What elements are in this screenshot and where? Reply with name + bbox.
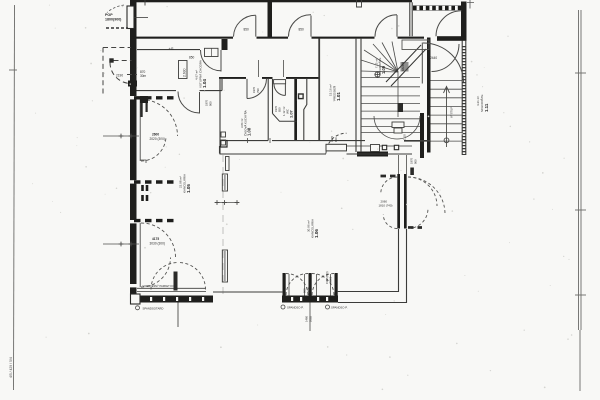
svg-text:1.01: 1.01: [336, 92, 341, 101]
svg-text:30.96 m²: 30.96 m²: [307, 220, 311, 232]
svg-text:3030 (300): 3030 (300): [150, 242, 165, 246]
svg-text:850: 850: [189, 56, 195, 60]
svg-text:18x176: 18x176: [401, 61, 405, 71]
svg-text:1.06: 1.06: [314, 229, 319, 238]
svg-text:4175: 4175: [152, 237, 159, 241]
svg-text:850: 850: [244, 28, 250, 32]
svg-text:1460: 1460: [305, 316, 309, 322]
svg-text:2020 (300): 2020 (300): [150, 137, 165, 141]
svg-text:2440: 2440: [430, 56, 437, 60]
svg-text:1970: 1970: [274, 106, 278, 112]
svg-text:4.21 m²: 4.21 m²: [476, 96, 480, 106]
svg-text:VYSTUP: VYSTUP: [450, 107, 454, 118]
svg-text:1970: 1970: [410, 158, 414, 164]
svg-text:4/5 / 429 / 5/4: 4/5 / 429 / 5/4: [9, 357, 13, 378]
svg-text:SPANDSO P.: SPANDSO P.: [331, 306, 348, 310]
svg-text:900: 900: [303, 288, 307, 293]
svg-text:2085: 2085: [309, 316, 313, 322]
svg-text:3.84 m²: 3.84 m²: [240, 118, 244, 128]
svg-text:2190: 2190: [116, 74, 123, 78]
svg-text:1.10: 1.10: [403, 134, 407, 140]
svg-text:1800(900): 1800(900): [105, 18, 122, 22]
svg-text:2000: 2000: [307, 287, 311, 293]
svg-text:850: 850: [278, 107, 282, 112]
svg-text:+S: +S: [169, 46, 174, 51]
svg-text:2.630: 2.630: [183, 68, 187, 77]
svg-text:2600: 2600: [152, 133, 159, 137]
svg-text:15.16 m²: 15.16 m²: [329, 84, 333, 96]
svg-text:850: 850: [334, 137, 338, 142]
svg-text:850: 850: [299, 28, 305, 32]
svg-text:1970: 1970: [205, 100, 209, 106]
svg-text:POP: POP: [105, 13, 113, 17]
svg-text:1.11: 1.11: [484, 103, 489, 112]
svg-text:1970: 1970: [252, 87, 256, 93]
svg-text:VSTUPNÁ CHODBA: VSTUPNÁ CHODBA: [199, 60, 203, 88]
svg-text:790: 790: [256, 88, 260, 93]
svg-text:900: 900: [414, 159, 418, 164]
svg-text:22.98 m²: 22.98 m²: [179, 176, 183, 188]
svg-text:7.15 m²: 7.15 m²: [375, 58, 379, 68]
svg-text:4.67 m²: 4.67 m²: [195, 70, 199, 80]
svg-text:KANCELÁRIA: KANCELÁRIA: [311, 219, 315, 238]
svg-text:VODOTESNÝ PARKET KOB: VODOTESNÝ PARKET KOB: [143, 284, 177, 288]
svg-text:900: 900: [209, 101, 213, 106]
svg-text:SPANDSOTARD: SPANDSOTARD: [143, 307, 164, 311]
svg-text:KANCELÁRIA: KANCELÁRIA: [183, 174, 187, 193]
svg-text:1.05: 1.05: [186, 184, 191, 193]
svg-text:1.04: 1.04: [202, 79, 207, 88]
svg-text:1980 (800): 1980 (800): [325, 271, 329, 284]
svg-text:SPANDSO P.: SPANDSO P.: [287, 306, 304, 310]
svg-text:30m: 30m: [140, 74, 147, 78]
svg-text:+2000: +2000: [329, 276, 333, 284]
svg-text:1970: 1970: [330, 136, 334, 142]
svg-text:1.12 m²: 1.12 m²: [282, 106, 286, 116]
svg-text:1810 (740): 1810 (740): [379, 204, 393, 208]
svg-text:WC: WC: [286, 108, 290, 114]
